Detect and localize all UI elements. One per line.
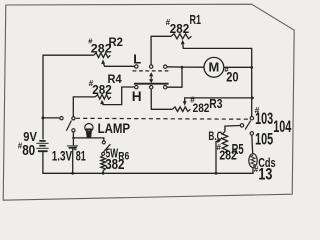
resistor R5 [222, 132, 227, 153]
svg-text:L: L [133, 52, 141, 67]
switch S1 slider bar [134, 83, 169, 85]
switch S1 contact H-mid [150, 86, 153, 89]
label 105 [255, 130, 273, 148]
resistor R1 [171, 34, 191, 39]
wire battery to switch S2 [43, 117, 60, 119]
svg-text:81: 81 [76, 148, 86, 163]
wire switch right contacts to motor [167, 67, 204, 87]
wire L-mid contact to R1 [151, 36, 171, 65]
svg-text:282: 282 [170, 21, 189, 36]
wire 1.3V battery to ground [72, 149, 74, 174]
label #282 R5 [217, 142, 244, 163]
switch S3 lever [104, 144, 111, 152]
wire R6 to ground rail [102, 171, 104, 174]
label #282 R4 [89, 72, 122, 97]
label #20 [224, 65, 238, 85]
svg-text:103: 103 [255, 110, 273, 128]
wire R4 feed [73, 97, 95, 117]
label B.C. [208, 129, 222, 143]
svg-text:R3: R3 [209, 97, 222, 111]
svg-text:M: M [209, 60, 220, 75]
svg-text:R5: R5 [232, 142, 244, 158]
switch S4 contact 103 [250, 117, 253, 120]
label #282 R1 [166, 12, 201, 36]
resistor R2 [94, 53, 111, 58]
switch S1 contact H-left [135, 85, 138, 88]
junction dot motor-left node [181, 66, 184, 69]
switch S3 contact bottom [102, 152, 105, 155]
svg-text:382: 382 [105, 157, 124, 173]
junction dot lamp tee [72, 137, 74, 139]
battery B2 1.3V plates [67, 146, 78, 148]
svg-text:R4: R4 [108, 72, 122, 86]
photocell PC1 Cds [249, 154, 257, 168]
switch S4 lever [245, 121, 251, 130]
switch S2 contact lower [72, 129, 75, 132]
switch S3 contact top [102, 141, 105, 144]
junction dot rail R5-wiper [215, 172, 218, 175]
battery B1 9V plates [36, 141, 48, 151]
ground rail wire [43, 152, 253, 174]
switch S1 dashed slider line [133, 70, 170, 72]
label 104 [273, 118, 292, 136]
label #282 R2 [88, 35, 123, 56]
lamp LP1 [85, 124, 93, 138]
svg-text:282: 282 [193, 101, 210, 115]
switch S1 contact L-mid [150, 65, 153, 68]
wire R4 wiper to H contact [100, 87, 134, 105]
label Cds #13 [254, 156, 276, 183]
junction dot rail R6 [102, 172, 105, 175]
switch S1 contact L-left [135, 65, 138, 68]
switch S1 contact H-right [164, 86, 167, 89]
dashed mechanical link line [76, 117, 249, 120]
switch S1 direction arrow [149, 72, 153, 83]
label 1.3V 81 [52, 145, 86, 163]
junction dot right bus at motor [250, 66, 253, 69]
svg-text:20: 20 [226, 70, 238, 85]
switch S2 contact common [72, 117, 75, 120]
switch S1 contact L-right [164, 65, 167, 68]
svg-text:13: 13 [258, 166, 272, 184]
label 5W R6 382 [105, 146, 129, 174]
wire R5 wiper to ground rail [216, 139, 221, 173]
svg-text:105: 105 [255, 130, 273, 148]
label #103 [255, 105, 274, 128]
switch S2 lever [66, 121, 71, 131]
motor M1 [204, 57, 224, 77]
svg-text:LAMP: LAMP [98, 121, 131, 137]
junction dot right bus at R3 [251, 97, 254, 100]
resistor R4 [95, 95, 111, 100]
wire battery positive to R2 [43, 55, 94, 139]
svg-text:1.3V: 1.3V [52, 148, 73, 163]
wire B.C. contact to R5 [225, 126, 240, 132]
svg-text:H: H [132, 89, 142, 104]
wire R1 wiper to motor node [181, 40, 252, 117]
resistor R6 [101, 155, 106, 170]
wire 105 contact to Cds [251, 135, 254, 154]
wire H-mid contact to R3 [151, 89, 172, 109]
svg-text:9V: 9V [23, 129, 37, 144]
wire R2 wiper to L contact [101, 59, 134, 66]
svg-text:R2: R2 [109, 35, 124, 49]
svg-text:R1: R1 [190, 12, 201, 27]
svg-text:80: 80 [22, 143, 35, 159]
switch S4 contact 105 [250, 132, 253, 135]
label L [133, 52, 141, 67]
junction dot battery tap [42, 116, 45, 119]
junction dot rail B2 [71, 172, 74, 175]
label #282 R3 [190, 96, 222, 115]
svg-text:104: 104 [273, 118, 292, 136]
wire motor to right bus [224, 66, 252, 68]
resistor R3 [172, 107, 190, 112]
switch S4 contact B.C. [240, 124, 243, 127]
border frame [3, 4, 294, 200]
label 9V #80 [18, 129, 37, 159]
wire R3 wiper to right bus [183, 98, 253, 106]
label LAMP [98, 121, 131, 137]
switch S2 contact left [60, 117, 63, 120]
wire switch to lamp and SW [73, 132, 103, 145]
label H [132, 89, 142, 104]
